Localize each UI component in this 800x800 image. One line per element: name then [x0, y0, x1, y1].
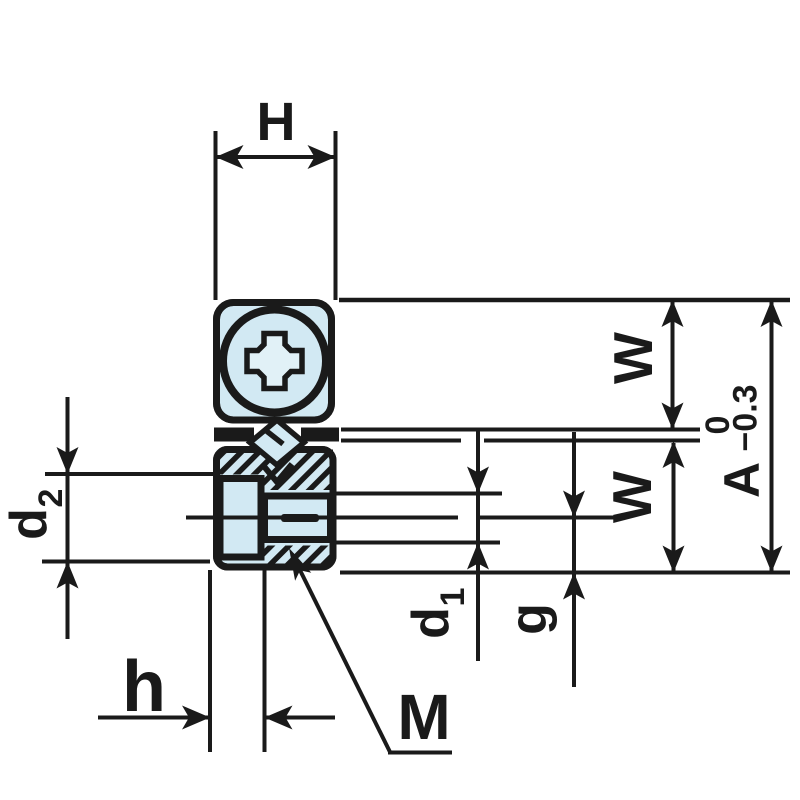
H extension line left [214, 131, 218, 300]
bottom extension line [340, 571, 790, 575]
svg-text:2: 2 [32, 489, 70, 508]
M leader underline [388, 751, 452, 755]
d1 top extension line [336, 492, 502, 496]
M leader line with arrow [292, 554, 390, 752]
head outline restroke (bottom edge over diamond tip) [217, 303, 332, 421]
H dimension line with arrows [216, 155, 336, 159]
d2 top extension line [45, 472, 215, 476]
diamond crease dash [267, 431, 284, 444]
screw head outline (rounded square) [217, 303, 332, 421]
svg-text:d: d [0, 508, 58, 540]
H extension line right [334, 131, 338, 300]
body outline (restroke) [217, 450, 334, 568]
label d2 [0, 489, 70, 540]
left column (sleeve wall) [220, 479, 261, 558]
svg-text:W: W [602, 332, 664, 384]
head top extension line [339, 298, 790, 303]
svg-text:H: H [257, 92, 296, 152]
flange top extension line [341, 428, 700, 432]
lower hatched band [262, 546, 333, 565]
svg-text:A: A [714, 462, 770, 498]
W top dimension line [671, 302, 675, 428]
svg-text:h: h [122, 647, 166, 727]
d1 dimension line [476, 428, 480, 661]
W bottom dimension line [672, 443, 676, 571]
threaded bore area [265, 496, 331, 540]
flange bottom extension line (right part) [484, 439, 700, 443]
svg-text:−0.3: −0.3 [727, 384, 765, 451]
svg-text:d: d [402, 607, 460, 639]
phillips cross recess [247, 334, 302, 389]
svg-text:M: M [397, 681, 450, 753]
d2 bottom extension line [42, 560, 210, 564]
h extension line right [263, 570, 267, 752]
flange bottom extension line (left part) [341, 439, 461, 443]
flange bar right [301, 428, 339, 442]
upper hatched band [217, 450, 334, 491]
label A with tolerance 0/-0.3 [699, 384, 770, 498]
d2 dimension line [66, 397, 70, 639]
flange bar left [214, 428, 254, 442]
screw head circle [223, 310, 326, 413]
thread V mark below diamond [262, 464, 292, 482]
h dimension arrow left [98, 716, 208, 720]
label d1 [402, 588, 472, 639]
d1 bottom extension line [336, 541, 500, 545]
svg-text:1: 1 [434, 588, 472, 607]
thread dash on centerline [281, 514, 319, 522]
diamond (screw tip) [250, 420, 304, 465]
h extension line left [208, 570, 212, 752]
body outline [217, 450, 334, 568]
svg-text:W: W [601, 471, 663, 523]
centerline (right segment) [479, 516, 622, 520]
g dimension line [572, 432, 576, 687]
A dimension line [770, 302, 774, 571]
svg-text:g: g [500, 603, 558, 635]
h dimension arrow right [267, 716, 336, 720]
centerline (left segment) [186, 516, 458, 520]
